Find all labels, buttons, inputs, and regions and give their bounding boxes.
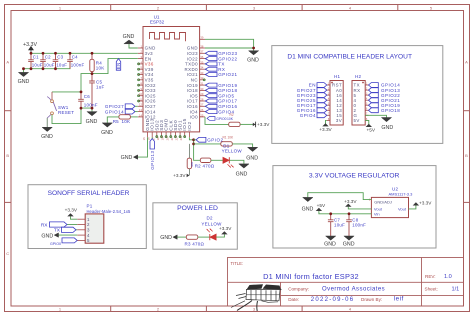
svg-text:D1 MINI form factor ESP32: D1 MINI form factor ESP32 [263,272,359,281]
global label GPIO14 at H2 [369,83,401,88]
svg-text:RX: RX [218,67,225,72]
title block frame [228,258,464,307]
capacitor C1 [28,53,43,68]
svg-text:GND: GND [343,241,355,247]
svg-text:GPIO19: GPIO19 [218,83,237,88]
section box: SONOFF SERIAL HEADER [28,185,146,249]
global label GPIO0 small [207,117,234,121]
svg-text:18: 18 [156,137,160,140]
svg-text:R2 470Ω: R2 470Ω [195,164,215,169]
ground below switch [41,127,53,140]
svg-text:29: 29 [200,92,203,96]
wire led D2 to 3.3V [216,234,224,237]
svg-text:NC: NC [191,78,198,83]
svg-text:IO16: IO16 [187,104,198,109]
ground above esp32 gnd pin [123,34,135,44]
led D1 yellow [222,143,243,167]
svg-text:RXD0: RXD0 [184,67,198,72]
wire switch left pin down [46,118,48,127]
wire R1 to gnd [232,144,252,147]
esp32 bottom pin stubs [148,132,190,137]
esp32 right NC pin circle [203,79,205,81]
svg-text:RX: RX [41,222,48,228]
svg-text:IO23: IO23 [187,51,198,56]
svg-text:2022-09-06: 2022-09-06 [311,297,355,303]
svg-text:D2: D2 [207,216,213,221]
svg-text:26: 26 [200,108,203,112]
resistor R5 [113,115,138,125]
svg-text:Company:: Company: [288,286,309,291]
svg-text:38: 38 [200,44,203,48]
global label GPIO4 [205,109,234,114]
wire R2 to led D1 [211,159,223,161]
wire R3 to led D2 [198,236,210,238]
global label GPIO18 at H2 [369,108,401,113]
title block field labels [231,261,438,302]
svg-text:+3.3V: +3.3V [419,200,432,205]
esp32 right pin numbers [200,36,203,118]
svg-text:IO27: IO27 [145,104,156,109]
svg-text:TX: TX [218,62,225,67]
section box: POWER LED [153,203,237,249]
svg-text:C6: C6 [84,94,90,99]
ground at P1 pin4 [41,233,77,239]
svg-text:IO26: IO26 [145,99,156,104]
global label GPIO22 at H2 [369,93,401,98]
global label GPIO13 at H2 [369,88,401,93]
connector H1 pin numbers [328,82,330,120]
connector H2 pin stubs [365,85,368,120]
svg-text:23: 23 [179,137,183,140]
global label RX [205,67,225,72]
wire EN branch left down to switch rail [52,74,92,92]
svg-text:GPIO14: GPIO14 [105,109,124,114]
global label GPIO13 vertical [150,137,155,170]
svg-text:10uF: 10uF [32,63,43,68]
resistor R3 [185,235,205,246]
connector P1 pin numbers [87,217,90,243]
svg-text:GPIO17: GPIO17 [218,99,237,104]
ground below C7 [324,236,336,247]
global label GPIO27 [105,104,138,109]
svg-text:36: 36 [200,55,203,59]
svg-text:D1 MINI COMPATIBLE HEADER LAYO: D1 MINI COMPATIBLE HEADER LAYOUT [287,54,412,61]
svg-text:10uF: 10uF [56,63,67,68]
ground left of bottom gnd pin [121,155,138,161]
esp32 right pin stubs [200,39,205,117]
ground below led D1 [236,164,249,178]
global label GPIO21 at H2 [369,98,401,103]
ground below H2 G pin [381,118,393,132]
ground right of esp32 [247,51,259,64]
global label EN vertical [116,59,121,71]
connector P1 pin stubs [77,219,85,240]
svg-text:IO21: IO21 [187,72,198,77]
svg-text:5V: 5V [354,118,360,123]
ground at regulator left [302,197,314,212]
svg-text:GPIO0: GPIO0 [50,242,61,246]
connector H2 pin names [354,83,361,123]
global label GPIO27 at H1 [297,88,327,93]
global label GPIO23 [205,51,237,56]
svg-text:3.3V VOLTAGE REGULATOR: 3.3V VOLTAGE REGULATOR [309,172,400,179]
svg-text:GND/ADJ: GND/ADJ [374,200,392,205]
esp32 left pin names [145,46,156,120]
svg-text:IO18: IO18 [187,88,198,93]
svg-text:TX: TX [54,228,61,234]
resistor R1 [221,135,234,146]
svg-text:POWER LED: POWER LED [177,205,218,212]
svg-text:Sheet:: Sheet: [425,286,438,291]
svg-text:Vin: Vin [374,212,380,217]
svg-text:IO33: IO33 [145,88,156,93]
svg-text:SONOFF SERIAL HEADER: SONOFF SERIAL HEADER [48,190,130,197]
global label GPIO25 at H1 [297,98,327,103]
svg-text:GND: GND [145,46,156,51]
svg-text:IO22: IO22 [187,56,198,61]
junction dots left area [22,52,93,110]
global label GPIO19 at H2 [369,103,401,108]
svg-text:+3.3V: +3.3V [319,127,332,132]
esp32 bottom pin numbers [142,137,183,140]
global label GPIO4 at H1 [300,113,327,118]
svg-text:GND: GND [187,46,198,51]
svg-text:IO25: IO25 [145,93,156,98]
svg-text:C1: C1 [33,55,39,60]
svg-text:IO4: IO4 [190,109,199,114]
power flag +3.3V at regulator left [344,199,357,207]
global label TX at P1 [54,227,77,233]
svg-text:RESET: RESET [58,110,74,115]
svg-text:GPIO4: GPIO4 [300,113,316,118]
svg-text:Drawn By:: Drawn By: [361,297,382,302]
wire decoupling bottom rail [24,62,71,73]
junction dots IO2 net [192,138,195,145]
svg-text:+3.3V: +3.3V [65,208,78,213]
svg-text:15: 15 [142,137,146,140]
ground below C8 [343,236,355,247]
wire C6 bottom to gnd stem [81,108,92,112]
power flag +3.3V above P1 [65,208,78,217]
connector H2 [352,74,365,125]
svg-text:3v3: 3v3 [145,51,154,56]
connector H1 pin stubs [327,85,330,120]
global label GPIO14 [105,109,138,114]
company logo house sketch [231,284,282,311]
svg-text:H2: H2 [355,74,361,79]
svg-text:P1: P1 [87,204,93,209]
svg-text:Date:: Date: [288,297,299,302]
wire R2 to 3.3V flag [240,123,253,125]
regulator U2 body [369,187,413,218]
esp32 left unconnected pin circles [138,63,140,102]
svg-text:22: 22 [175,137,179,140]
svg-text:GPIO23: GPIO23 [218,51,237,56]
capacitor C7 [328,214,345,236]
svg-text:10K: 10K [122,119,131,124]
power flag +3.3V at regulator output [413,200,433,205]
resistor R2 pullup [229,113,240,126]
svg-text:25: 25 [200,113,203,117]
svg-text:GPIO18: GPIO18 [381,108,400,113]
power flag +3.3V at power led [219,226,232,234]
global label GPIO16 at H1 [297,108,327,113]
svg-text:13: 13 [139,108,142,112]
svg-text:Overmod Associates: Overmod Associates [322,286,385,292]
svg-text:GND: GND [18,79,30,85]
global label GPIO5 [205,93,234,98]
svg-text:20: 20 [165,137,169,140]
svg-text:B: B [6,153,9,158]
svg-text:+5V: +5V [317,203,326,208]
svg-text:leif: leif [394,296,404,303]
svg-text:37: 37 [200,50,203,54]
svg-text:GND: GND [324,241,336,247]
svg-text:GND: GND [160,235,172,241]
svg-text:+3.3V: +3.3V [173,173,186,178]
svg-text:GPIO5: GPIO5 [218,93,234,98]
svg-text:34: 34 [200,66,203,70]
svg-text:R3 470Ω: R3 470Ω [185,241,205,246]
svg-text:R1 10K: R1 10K [223,135,235,139]
esp32 module U1 body [143,15,200,132]
svg-text:V35: V35 [145,78,154,83]
svg-text:12: 12 [139,103,142,107]
power flag +3.3V right of R2 [253,122,271,128]
svg-text:27: 27 [200,103,203,107]
svg-text:GND: GND [247,58,259,64]
wire H2 5V pin to 5V flag [365,120,369,124]
global label TX [205,62,225,67]
capacitor C5 [89,74,104,109]
svg-text:GND: GND [302,206,314,212]
svg-text:EN: EN [145,56,152,61]
svg-text:GND: GND [236,172,248,178]
svg-text:5: 5 [87,238,90,243]
section box: D1 MINI COMPATIBLE HEADER LAYOUT [272,46,443,144]
title block values [263,272,459,303]
esp32 right pin names [184,46,198,120]
svg-text:100nF: 100nF [71,63,85,68]
svg-text:21: 21 [170,137,174,140]
svg-text:10K: 10K [96,66,105,71]
svg-text:R2: R2 [230,113,234,117]
wire U2 gnd/adj to gnd [308,193,372,200]
svg-text:19: 19 [161,137,165,140]
resistor R4 [90,53,105,73]
svg-text:33: 33 [200,71,203,75]
svg-text:1/1: 1/1 [452,286,460,292]
svg-text:IO32: IO32 [145,83,156,88]
svg-text:YELLOW: YELLOW [222,149,243,154]
connector P1 sonoff header [85,204,131,244]
svg-text:GND: GND [246,155,258,161]
svg-text:A: A [6,60,9,65]
wire EN net to pin [92,59,138,74]
svg-text:C2: C2 [45,55,51,60]
svg-text:31: 31 [200,82,203,86]
capacitor C6 [78,92,98,108]
svg-text:100nF: 100nF [84,103,98,108]
svg-text:IO14: IO14 [145,109,156,114]
global label GPIO21 [205,72,237,77]
wire 3.3V rail to 3v3 pin [31,52,138,54]
wire U2 right vout to 3.3V flag [409,205,416,209]
svg-text:GND: GND [86,119,98,125]
svg-text:10K: 10K [227,117,234,121]
svg-text:100nF: 100nF [352,223,366,228]
ground below decoupling rail [18,72,30,85]
svg-text:+3.3V: +3.3V [23,42,37,48]
svg-text:GPIO16: GPIO16 [218,104,237,109]
svg-text:IO0: IO0 [190,115,199,120]
svg-text:GPIO27: GPIO27 [105,104,124,109]
svg-text:3: 3 [87,228,90,233]
svg-text:EN: EN [116,62,121,69]
svg-text:Vout: Vout [398,206,407,211]
resistor R6 vertical pullup on IO2 [187,144,194,176]
svg-text:C4: C4 [72,55,78,60]
svg-text:IO19: IO19 [187,83,198,88]
ground below C5 C6 [86,112,98,125]
svg-text:TXD0: TXD0 [185,62,198,67]
resistor R2 470 for led D1 [195,158,215,169]
power flag +3.3V below H1 [319,123,332,132]
wire R5 to gnd [107,117,119,123]
svg-text:ESP32: ESP32 [150,20,165,25]
esp32 left pin numbers [139,44,143,117]
svg-text:+3.3V: +3.3V [257,122,270,127]
esp32 left pin stubs [138,48,143,117]
capacitor C2 [40,53,55,68]
junction dots regulator [329,212,350,215]
svg-text:GND: GND [41,233,53,239]
wire esp32 gnd pin 1 [129,44,138,48]
svg-text:REV:: REV: [425,274,436,279]
svg-text:+3.3V: +3.3V [219,226,232,231]
wire esp32 IO0 to pullup [205,117,229,125]
ground below R1 [246,147,258,161]
global label RX at P1 [41,222,77,228]
wire H1 3V pin to 3.3V flag [326,120,327,126]
svg-text:IO2: IO2 [187,121,193,130]
svg-text:28: 28 [200,97,203,101]
section box: 3.3V VOLTAGE REGULATOR [273,166,436,248]
connector H1 [330,74,343,125]
connector H2 pin numbers [366,82,368,120]
svg-text:V39: V39 [145,67,154,72]
svg-text:B: B [465,153,468,158]
svg-text:V36: V36 [145,62,154,67]
svg-text:+5V: +5V [367,127,376,132]
svg-text:14: 14 [139,113,142,117]
global label GPIO17 [205,99,237,104]
svg-text:C: C [6,251,9,256]
svg-text:H1: H1 [334,74,340,79]
power led circuit gnd flag [160,235,186,241]
svg-text:IO5: IO5 [190,93,199,98]
wire led D1 to gnd [229,160,244,164]
svg-text:GND: GND [101,130,113,136]
global label GPIO23 at H1 [297,93,327,98]
capacitor C4 [67,53,84,68]
svg-text:+3.3V: +3.3V [344,199,357,204]
svg-text:IO17: IO17 [187,99,198,104]
svg-text:GPIO0: GPIO0 [216,117,226,121]
svg-text:10K: 10K [190,162,194,167]
global label GPIO17 at H1 [297,103,327,108]
esp32 bottom pin names [145,118,193,131]
svg-text:10: 10 [139,92,142,96]
svg-text:AMS1117-3.3: AMS1117-3.3 [389,192,414,197]
svg-text:35: 35 [200,60,203,64]
wire esp32 IO2 net [189,137,200,160]
power flag +5V at regulator [316,203,326,211]
svg-text:R5: R5 [113,119,119,124]
svg-text:1uF: 1uF [96,85,105,90]
svg-text:GPIO18: GPIO18 [218,88,237,93]
power flag +5V below H2 [366,124,376,133]
svg-text:Header-Male-2.54_1x5: Header-Male-2.54_1x5 [87,209,131,214]
svg-text:39: 39 [200,36,203,40]
power flag +3.3V below R6 [173,173,189,178]
global label GPIO18 [205,88,237,93]
svg-text:A: A [465,60,468,65]
svg-text:1.0: 1.0 [444,274,452,280]
svg-text:V34: V34 [145,72,154,77]
svg-text:10uF: 10uF [334,223,345,228]
wire +5V to U2 vin [319,211,372,214]
svg-text:GPIO13: GPIO13 [150,151,155,170]
junction top right gnd [252,47,255,50]
connector H1 pin names [332,83,342,123]
svg-text:GPIO22: GPIO22 [218,56,237,61]
global label GPIO22 [205,56,237,61]
svg-text:GND: GND [381,125,393,131]
global label GPIO19 [205,83,237,88]
global label GPIO2 [194,137,224,142]
svg-text:GND: GND [121,155,133,161]
global label EN at H1 [309,83,327,88]
svg-text:2: 2 [87,222,90,227]
wire switch bottom loop to C6 gnd rail [52,108,81,124]
wire GPIO2 branch to R1 [194,143,221,145]
svg-text:C3: C3 [57,55,63,60]
capacitor C8 [346,214,366,236]
svg-text:4: 4 [87,233,90,238]
wire esp32 top right gnd pins [205,39,254,50]
svg-text:30: 30 [200,87,203,91]
capacitor C3 [53,53,68,68]
esp32 bottom unconnected pin circles [156,136,186,138]
wire U2 left vout to 3.3V flag [348,207,371,209]
svg-text:GND: GND [123,34,135,40]
svg-text:10uF: 10uF [44,63,55,68]
svg-text:GND: GND [41,134,53,140]
svg-text:1: 1 [87,217,90,222]
power flag +3.3V top left [23,42,37,54]
global label GPIO16 [205,104,237,109]
svg-text:GPIO21: GPIO21 [218,72,237,77]
switch SW1 RESET [47,92,74,118]
svg-text:TITLE:: TITLE: [231,261,244,266]
wire esp32 bottom gnd pin [138,137,148,157]
svg-text:3V: 3V [336,118,342,123]
esp32 antenna meander [150,33,186,42]
led D2 yellow [201,216,222,241]
wire P1 pin1 to 3.3V flag [71,216,78,219]
ground below R5 [101,123,113,136]
